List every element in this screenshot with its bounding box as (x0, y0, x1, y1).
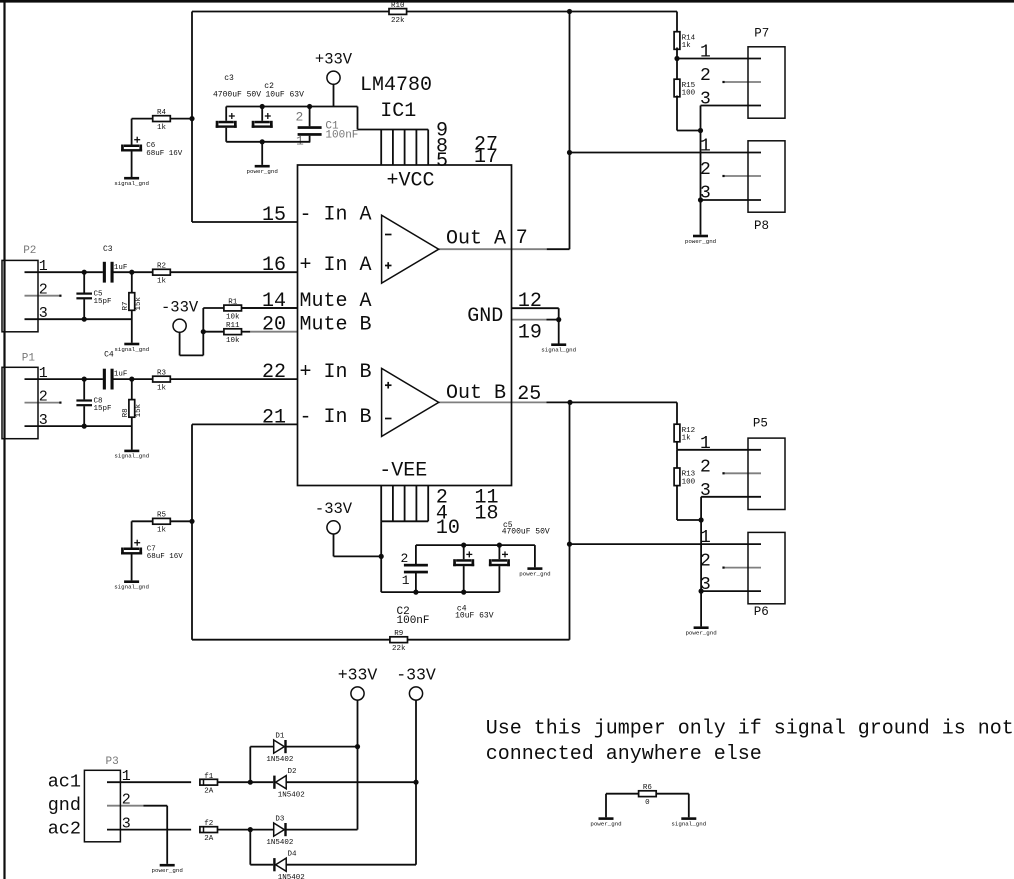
junction mute (201, 329, 206, 334)
svg-text:2: 2 (122, 792, 131, 809)
wire to P7 pin 3 (701, 105, 762, 107)
P6 pin 2 stub (unconnected) (724, 567, 762, 569)
svg-text:100nF: 100nF (325, 129, 358, 141)
svg-text:R15: R15 (682, 82, 696, 90)
wire R6 left (606, 793, 639, 795)
svg-text:Mute A: Mute A (300, 290, 372, 313)
svg-text:2: 2 (39, 389, 48, 406)
wire D3 cathode to +33V vertical (287, 829, 358, 831)
svg-text:2A: 2A (204, 787, 214, 795)
wire R14 to P7 pin1 junction (676, 48, 678, 59)
wire R5 right (170, 520, 192, 522)
svg-text:10uF 63V: 10uF 63V (455, 611, 494, 620)
svg-text:+ In B: + In B (300, 361, 372, 384)
svg-text:P8: P8 (754, 219, 769, 233)
svg-text:Mute B: Mute B (300, 314, 372, 337)
wire up to P7 pin3 level (700, 106, 702, 131)
svg-text:LM4780: LM4780 (360, 74, 432, 97)
op-amp B triangle (382, 368, 439, 436)
diode D2 1N5402 (273, 768, 305, 800)
connector P8 (700, 137, 785, 234)
IC1 -VEE pin stub 1 (380, 486, 382, 522)
svg-text:-VEE: -VEE (379, 460, 427, 483)
IC1 +VCC pin stub 2 (392, 130, 394, 166)
wire down to R12 (676, 402, 678, 424)
svg-text:4700uF 50V: 4700uF 50V (213, 90, 261, 99)
wire to signal_gnd (558, 320, 560, 344)
wire P1 pin 3 (25, 425, 132, 427)
svg-text:R8: R8 (122, 408, 130, 417)
svg-text:P6: P6 (754, 605, 769, 619)
wire rail to power_gnd (534, 545, 536, 567)
supply +33V (bottom) (338, 665, 378, 700)
resistor R14 1k (674, 32, 696, 50)
wire down to R14 (676, 12, 678, 34)
IC1 +VCC pin stub 3 (404, 130, 406, 166)
wire C6 to signal_gnd (131, 152, 133, 178)
svg-text:1: 1 (700, 528, 711, 548)
wire +33V circle down (357, 700, 359, 747)
wire +33V circle to rail (333, 84, 335, 106)
junction R4 (189, 116, 194, 121)
junction C8 top (82, 377, 87, 382)
diode D3 1N5402 (266, 815, 293, 847)
svg-text:P1: P1 (22, 353, 36, 365)
wire junction to R14 column (570, 11, 678, 13)
wire to node below P7 (677, 130, 701, 132)
c4 top wire (463, 545, 465, 559)
svg-text:10k: 10k (226, 313, 240, 321)
svg-text:10uF 63V: 10uF 63V (266, 90, 305, 99)
fuse f2 2A (200, 820, 218, 843)
svg-text:15k: 15k (135, 403, 143, 417)
wire pin 14 (Mute A) (242, 307, 298, 309)
capacitor C2 100nF (404, 564, 428, 574)
wire R15 down (676, 96, 678, 131)
IC1 +VCC pin stub 4 (415, 130, 417, 166)
connector P6 (700, 528, 785, 619)
svg-text:f1: f1 (204, 773, 214, 781)
svg-text:5: 5 (436, 150, 448, 173)
svg-text:2A: 2A (204, 835, 214, 843)
IC1 +VCC pin stub 1 (380, 130, 382, 166)
R9 bottom wire right (408, 639, 570, 641)
junction +33V/D1 (355, 744, 360, 749)
svg-text:3: 3 (700, 481, 711, 501)
ground power_gnd (VEE caps) (519, 567, 550, 577)
ground power_gnd below P6 (685, 626, 716, 636)
junction c4 bottom (461, 590, 466, 595)
svg-text:1N5402: 1N5402 (266, 839, 293, 847)
wire R5 left (132, 520, 153, 522)
svg-text:2: 2 (700, 552, 711, 572)
wire to junction below P5 (677, 519, 701, 521)
wire down to power_gnd (605, 794, 607, 818)
+VCC top rail (226, 106, 357, 108)
svg-text:22k: 22k (391, 17, 405, 25)
svg-text:1: 1 (700, 43, 711, 63)
wire R8 bottom to signal_gnd (131, 417, 133, 450)
svg-text:100: 100 (682, 478, 696, 486)
wire -33V to mute node (180, 354, 204, 356)
ground signal_gnd (R8) (114, 450, 149, 460)
wire R4 right (170, 118, 192, 120)
svg-text:R5: R5 (157, 512, 167, 520)
resistor R3 1k (153, 370, 171, 393)
IC1 -VEE pin stub 3 (404, 486, 406, 522)
diode D4 1N5402 (273, 851, 305, 879)
caps top rail (power_gnd side) (416, 544, 535, 546)
supply -33V (VEE) (315, 500, 353, 534)
svg-text:68uF 16V: 68uF 16V (147, 553, 184, 561)
wire pin 19 (547, 319, 559, 321)
svg-text:15: 15 (262, 204, 286, 227)
svg-text:signal_gnd: signal_gnd (114, 453, 149, 460)
svg-text:-33V: -33V (315, 500, 353, 518)
junction -33V/VEE (379, 554, 384, 559)
wire pin2 down to power_gnd (166, 806, 168, 864)
wire pin 15 (- In A) (192, 221, 298, 223)
capacitor c2 10uF 63V (252, 113, 273, 128)
VEE vertical (380, 521, 382, 592)
wire node A to D2 cathode (250, 781, 273, 783)
svg-text:1: 1 (700, 137, 711, 157)
wire to P6 pin 3 (701, 590, 761, 592)
wire +33V down to D3 row (357, 747, 359, 830)
svg-text:1: 1 (296, 133, 304, 148)
svg-text:D3: D3 (275, 815, 285, 823)
svg-text:1uF: 1uF (114, 264, 128, 272)
wire C3 to R2 (114, 271, 153, 273)
svg-text:-33V: -33V (396, 665, 436, 684)
junction C5 bottom (82, 317, 87, 322)
resistor R10 22k (389, 2, 407, 25)
svg-text:+VCC: +VCC (387, 170, 435, 193)
C1 bottom wire (309, 136, 311, 142)
ground signal_gnd (C7) (114, 580, 149, 590)
resistor R9 22k (390, 630, 408, 653)
resistor R12 1k (674, 424, 695, 442)
svg-text:2: 2 (401, 551, 409, 566)
svg-text:- In A: - In A (300, 204, 372, 227)
junction P8 pin1 on Out A vertical (567, 150, 572, 155)
wire down to signal_gnd (688, 794, 690, 818)
wire mute node up (202, 308, 204, 355)
wire -33V circle down (333, 534, 335, 557)
svg-text:GND: GND (467, 305, 503, 328)
wire C8 bottom (83, 406, 85, 426)
resistor R4 1k (153, 109, 171, 132)
wire R4 left (132, 118, 153, 120)
svg-text:signal_gnd: signal_gnd (541, 347, 576, 354)
wire P3 pin 3 to f2 (107, 829, 191, 831)
P3 pin 2 stub (107, 805, 143, 807)
svg-text:+33V: +33V (338, 665, 378, 684)
junction C1 top (307, 104, 312, 109)
wire to R11 (203, 331, 224, 333)
wire to P7 pin 1 (677, 58, 761, 60)
wire up to P5 pin3 level (700, 497, 702, 520)
junction R7 top (129, 270, 134, 275)
P1 pin 2 stub (unconnected) (25, 402, 61, 404)
wire C5 top (83, 272, 85, 292)
svg-text:1k: 1k (157, 278, 167, 286)
Out A vertical net wire (569, 12, 571, 250)
svg-text:20: 20 (262, 314, 286, 337)
svg-text:P5: P5 (753, 417, 768, 431)
c3 bottom wire (225, 128, 227, 142)
svg-text:R10: R10 (391, 2, 405, 10)
svg-text:1k: 1k (157, 527, 167, 535)
svg-text:1: 1 (700, 434, 711, 454)
svg-text:2: 2 (39, 282, 48, 299)
svg-text:R1: R1 (228, 298, 238, 306)
wire P2 pin 3 (25, 318, 132, 320)
junction power_gnd (260, 139, 265, 144)
wire C8 top (83, 379, 85, 399)
capacitor C3 1uF (series) (103, 262, 114, 283)
IC1 -VEE pin stub 5 (427, 486, 429, 522)
C1 top wire (309, 107, 311, 127)
junction -33V/D2 (413, 780, 418, 785)
resistor R6 0 (jumper) (639, 784, 657, 807)
frame top border (0, 0, 1014, 3)
svg-text:0: 0 (645, 799, 650, 807)
connector P5 (700, 417, 785, 510)
svg-text:f2: f2 (204, 820, 213, 828)
IC1 pin 7 line from op-amp A output (439, 248, 547, 250)
wire down to R13 (676, 450, 678, 468)
wire P3 pin 1 to f1 (107, 781, 191, 783)
IC1 -VEE pin stub 4 (415, 486, 417, 522)
wire pin 16 (+ In A) (170, 271, 297, 273)
junction R14/R15/P7.1 (674, 56, 679, 61)
IC1 -VEE pin stub 2 (392, 486, 394, 522)
fuse f1 2A (200, 773, 218, 796)
wire C7 to signal_gnd (131, 555, 133, 581)
op-amp A triangle (382, 215, 439, 283)
wire R7 top (131, 272, 133, 293)
wire R12 to P5 pin1 (676, 442, 678, 450)
svg-text:R4: R4 (157, 109, 167, 117)
svg-text:1k: 1k (157, 124, 167, 132)
c5 bottom wire (498, 566, 500, 592)
svg-text:R12: R12 (682, 427, 696, 435)
svg-text:ac1: ac1 (48, 771, 81, 792)
ground power_gnd (VCC caps) (247, 165, 278, 175)
wire to P6 pin 1 (570, 543, 762, 545)
svg-text:22k: 22k (392, 645, 406, 653)
capacitor C7 68uF 16V (121, 540, 142, 555)
capacitor C5 15pF (76, 293, 92, 300)
resistor R7 15k (122, 293, 143, 311)
junction P8 pin 3 (698, 197, 703, 202)
svg-text:100nF: 100nF (397, 615, 430, 627)
P8 pin 2 stub (unconnected) (724, 175, 762, 177)
ground signal_gnd (R6) (671, 817, 706, 827)
junction GND (556, 317, 561, 322)
P5 pin 2 stub (unconnected) (724, 472, 762, 474)
wire to power_gnd (261, 142, 263, 165)
svg-text:15k: 15k (135, 296, 143, 310)
svg-text:R6: R6 (643, 784, 653, 792)
svg-text:R13: R13 (682, 471, 696, 479)
wire pin 12 down (558, 308, 560, 319)
svg-text:4700uF 50V: 4700uF 50V (502, 528, 550, 537)
resistor R15 100 (674, 79, 696, 97)
wire to P8 pin 1 (570, 152, 762, 154)
wire C4 to R3 (114, 378, 153, 380)
wire R10 right to junction (407, 11, 570, 13)
svg-text:Use this jumper only if signal: Use this jumper only if signal ground is… (486, 718, 1014, 741)
C2 bottom wire (415, 573, 417, 592)
svg-text:3: 3 (700, 90, 711, 110)
junction R8 top (129, 377, 134, 382)
ground power_gnd (R6) (590, 817, 621, 827)
IC1 pin 20 stub (250, 331, 297, 333)
wire f1 to node A (218, 781, 251, 783)
svg-text:7: 7 (516, 227, 528, 250)
R9 bottom wire left (192, 639, 390, 641)
op-amp U: IC1 LM4780 box (298, 165, 512, 486)
wire pin 20 (Mute B) (242, 331, 251, 333)
svg-text:Out A: Out A (446, 227, 506, 250)
svg-text:connected anywhere else: connected anywhere else (486, 743, 762, 766)
svg-text:3: 3 (700, 184, 711, 204)
svg-text:10k: 10k (226, 337, 240, 345)
junction node B (248, 827, 253, 832)
svg-text:2: 2 (700, 160, 711, 180)
svg-text:signal_gnd: signal_gnd (114, 584, 149, 591)
junction below P7 (698, 128, 703, 133)
vertical net wire pin15 feedback (191, 12, 193, 223)
svg-text:25: 25 (517, 383, 541, 406)
svg-text:18: 18 (475, 503, 499, 526)
P7 pin 2 stub (unconnected) (724, 81, 762, 83)
svg-text:68uF 16V: 68uF 16V (146, 150, 183, 158)
ground power_gnd (P3) (152, 864, 183, 874)
capacitor c3 4700uF 50V (216, 113, 237, 128)
VEE pins bottom rail (381, 520, 428, 522)
wire D2 anode to -33V (286, 781, 416, 783)
Out B vertical (569, 402, 571, 639)
junction R5 (189, 519, 194, 524)
c2 top wire (261, 107, 263, 121)
resistor R8 15k (122, 400, 143, 418)
junction P6 pin 3 (699, 589, 704, 594)
svg-text:power_gnd: power_gnd (685, 238, 716, 245)
capacitor c4 10uF 63V (453, 551, 474, 566)
VEE bottom rail (381, 591, 499, 593)
svg-text:12: 12 (518, 290, 542, 313)
junction C8 bottom (82, 424, 87, 429)
svg-text:ac2: ac2 (48, 819, 81, 840)
wire -33V down to D4 row (415, 782, 417, 865)
IC1 pin 25 line from op-amp B output (439, 401, 547, 403)
capacitor C1 100nF (298, 126, 322, 136)
junction c5 top (497, 543, 502, 548)
c5 top wire (498, 545, 500, 559)
connector P1 (2, 353, 48, 439)
wire junction down to R15 (676, 59, 678, 81)
ground signal_gnd (R7) (114, 343, 149, 353)
junction c2 top (260, 104, 265, 109)
svg-text:2: 2 (700, 66, 711, 86)
C2 top wire (415, 545, 417, 564)
svg-text:3: 3 (700, 575, 711, 595)
svg-text:-33V: -33V (161, 299, 199, 317)
svg-text:1N5402: 1N5402 (266, 756, 293, 764)
resistor R11 10k (224, 322, 242, 345)
svg-text:15pF: 15pF (94, 298, 112, 306)
svg-text:gnd: gnd (48, 795, 81, 816)
svg-text:21: 21 (262, 406, 286, 429)
c4 bottom wire (463, 566, 465, 592)
wire rail to VCC pins (357, 107, 359, 130)
+VCC bottom rail (226, 141, 310, 143)
svg-text:+33V: +33V (315, 51, 353, 69)
capacitor c5 4700uF 50V (489, 551, 510, 566)
connector P7 (700, 27, 785, 119)
wire R8 top (131, 379, 133, 400)
svg-text:14: 14 (262, 290, 286, 313)
wire D4 anode to -33V vertical (286, 864, 416, 866)
svg-text:D2: D2 (287, 768, 296, 776)
resistor R13 100 (674, 468, 696, 486)
svg-text:D4: D4 (287, 851, 297, 859)
svg-text:R9: R9 (394, 630, 403, 638)
Out B pin 25 net wire (547, 401, 678, 403)
ground power_gnd below P8 (685, 235, 716, 245)
capacitor C6 68uF 16V (121, 137, 142, 152)
junction c4 top (461, 543, 466, 548)
svg-text:power_gnd: power_gnd (685, 630, 716, 637)
svg-text:16: 16 (262, 254, 286, 277)
connector P3 (84, 756, 130, 842)
svg-text:2: 2 (296, 109, 304, 124)
svg-text:10: 10 (436, 517, 460, 540)
capacitor C4 1uF (series) (103, 369, 114, 390)
wire to P5 pin 1 (677, 449, 761, 451)
svg-text:signal_gnd: signal_gnd (114, 346, 149, 353)
svg-text:1N5402: 1N5402 (278, 874, 305, 879)
svg-text:1k: 1k (682, 435, 692, 443)
ground signal_gnd (C6) (114, 177, 149, 187)
junction P6 pin 1 (567, 542, 572, 547)
svg-text:2: 2 (700, 457, 711, 477)
wire down to P8 pin 3 (700, 131, 702, 201)
svg-text:1k: 1k (157, 385, 167, 393)
svg-text:C4: C4 (104, 351, 114, 360)
P2 pin 2 stub (unconnected) (25, 295, 61, 297)
svg-text:R11: R11 (226, 322, 240, 330)
capacitor C8 15pF (76, 399, 92, 406)
svg-text:power_gnd: power_gnd (247, 168, 278, 175)
svg-text:Out B: Out B (446, 382, 506, 405)
wire to power_gnd below P6 (700, 591, 702, 626)
wire -33V circle down (179, 332, 181, 355)
wire to P5 pin 3 (701, 496, 761, 498)
svg-text:P7: P7 (754, 27, 769, 41)
wire down to C7 (131, 521, 133, 547)
supply +33V (top) (315, 51, 353, 85)
wire R10 left to vertical x=192 (192, 11, 389, 13)
wire to power_gnd below P8 (700, 200, 702, 235)
wire down to C6 (131, 119, 133, 145)
pin 21 feedback vertical (191, 424, 193, 639)
wire node A up to D1 (249, 747, 251, 783)
wire pin 21 (- In B) (192, 423, 298, 425)
